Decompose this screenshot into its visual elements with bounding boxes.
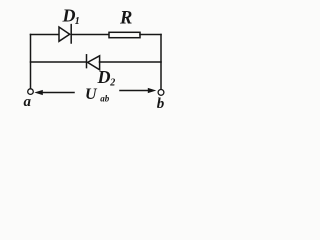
label D1 bbox=[62, 6, 80, 28]
wire top-left segment bbox=[31, 34, 60, 36]
terminal b bbox=[158, 90, 164, 96]
arrow toward b bbox=[120, 88, 156, 93]
resistor R bbox=[109, 32, 140, 37]
svg-text:a: a bbox=[24, 94, 32, 110]
svg-text:U: U bbox=[85, 86, 98, 103]
svg-text:R: R bbox=[119, 9, 132, 29]
svg-text:2: 2 bbox=[109, 78, 115, 89]
svg-text:ab: ab bbox=[100, 93, 110, 103]
diode D2 bbox=[87, 55, 100, 70]
label D2 bbox=[97, 67, 116, 88]
terminal a bbox=[28, 89, 34, 95]
label Uab bbox=[85, 86, 110, 103]
wire middle-right segment bbox=[100, 61, 162, 63]
wire middle-left segment bbox=[31, 61, 87, 63]
svg-text:1: 1 bbox=[75, 16, 80, 27]
svg-text:D: D bbox=[62, 6, 76, 26]
wire D1 to resistor bbox=[71, 34, 109, 36]
diode D1 bbox=[59, 25, 71, 43]
arrow toward a bbox=[34, 90, 74, 95]
wire left rail bbox=[30, 35, 32, 89]
svg-text:b: b bbox=[157, 96, 165, 112]
wire resistor to top-right corner bbox=[140, 34, 161, 36]
wire right rail bbox=[160, 35, 162, 90]
svg-text:D: D bbox=[97, 67, 111, 87]
